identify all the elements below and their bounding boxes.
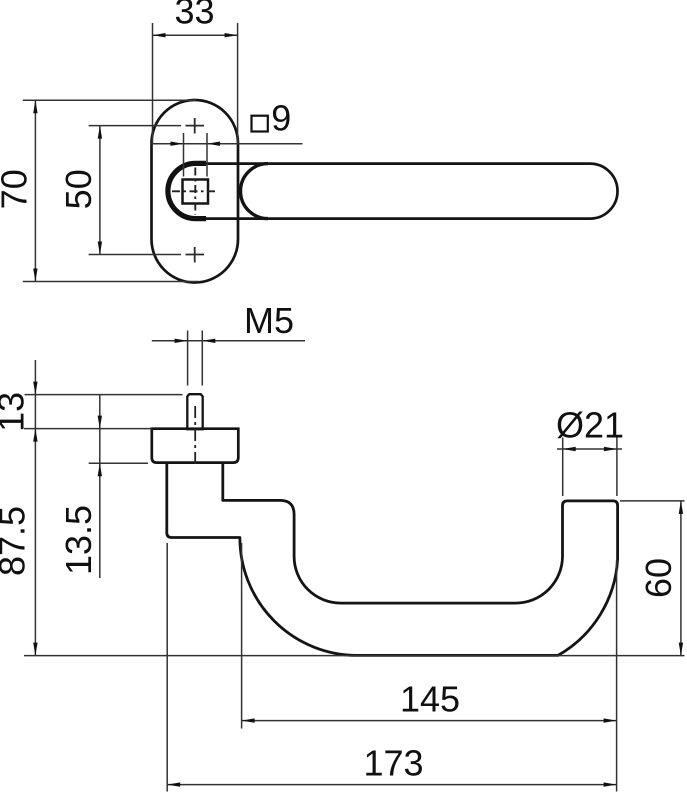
dimension 13 extension line stud top: [25, 394, 183, 396]
dimension M5 extension lines: [188, 331, 203, 386]
centerline horizontal of spindle: [172, 190, 218, 192]
baseline extension (bottom of grip): [24, 655, 685, 657]
svg-text:9: 9: [271, 98, 291, 139]
dimension 145 line: [242, 720, 617, 722]
grip end arc at neck: [240, 164, 268, 219]
dimension 173 extension line left: [166, 543, 168, 792]
dimension 87.5 bottom arrow: [33, 643, 37, 656]
svg-text:173: 173: [363, 743, 423, 784]
dimension 70 line: [34, 100, 36, 281]
dimension square-9 arrows: [171, 142, 184, 146]
screw hole cross bottom: [186, 247, 205, 263]
svg-text:33: 33: [174, 0, 214, 32]
dimension 173 line: [167, 784, 616, 786]
rose plate oval: [152, 100, 239, 283]
dimension 70 arrows: [33, 100, 37, 113]
dimension diameter-21 line: [557, 448, 622, 450]
dimension square-9 label square symbol: [252, 116, 268, 132]
dimension 145 extension line left: [241, 543, 243, 729]
centerline vertical of spindle: [194, 168, 196, 215]
dimension diameter-21 extension lines: [563, 438, 617, 497]
svg-text:70: 70: [0, 169, 34, 209]
centerline of stud (bottom view): [194, 406, 196, 466]
dimension 33 arrows: [153, 33, 166, 37]
dimension 173 arrows: [167, 782, 180, 786]
lever neck bold end cap: [168, 163, 206, 218]
dimension square-9 extension lines: [184, 133, 208, 177]
dimension 145 / 173 shared extension line right: [616, 560, 618, 792]
dimension 60 arrows: [679, 501, 683, 514]
dimension 60 line: [680, 501, 682, 656]
dimension 70 extension lines: [23, 100, 199, 281]
spindle square hole: [183, 180, 209, 204]
svg-text:60: 60: [638, 558, 679, 598]
dimension M5 arrows: [175, 339, 188, 343]
dimension 33 extension lines: [153, 23, 238, 143]
svg-text:145: 145: [400, 679, 460, 720]
dimension 50 line: [99, 126, 101, 255]
svg-text:Ø21: Ø21: [556, 405, 624, 446]
svg-text:M5: M5: [244, 300, 294, 341]
dimension 13.5 arrows: [98, 416, 102, 429]
threaded stud M5: [187, 394, 202, 429]
svg-text:13.5: 13.5: [58, 505, 99, 575]
dimension 50 extension lines: [89, 126, 181, 255]
dimension 13 and 87.5 shared line: [34, 360, 36, 656]
dimension square-9 line: [151, 143, 303, 145]
svg-text:87.5: 87.5: [0, 506, 32, 576]
dimension M5 line: [152, 340, 305, 342]
dimension 50 arrows: [98, 126, 102, 139]
dimension 13 / 13.5 extension line cap top: [24, 428, 152, 430]
handle profile outline: [167, 463, 618, 656]
dimension 145 arrows: [242, 718, 255, 722]
dimension 60 extension line top: [620, 500, 685, 502]
screw hole cross top: [186, 118, 205, 134]
dimension 13 arrows: [33, 382, 37, 395]
dimension 13.5 line: [99, 395, 101, 578]
dimension 13.5 extension line cap bottom: [89, 462, 148, 464]
dimension 33 line: [153, 34, 238, 36]
lever bar (top view): [205, 164, 618, 219]
svg-text:13: 13: [0, 392, 32, 432]
bearing cap: [152, 429, 239, 463]
dimension diameter-21 arrows: [563, 447, 576, 451]
svg-text:50: 50: [58, 169, 99, 209]
